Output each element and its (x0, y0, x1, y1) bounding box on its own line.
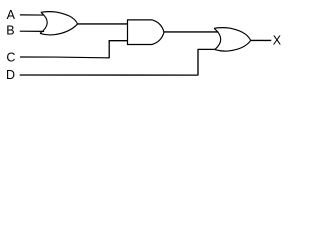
or-gate U1 bottom wing (40, 24, 78, 35)
svg-text:X: X (273, 33, 282, 47)
or-gate U1 top wing (41, 12, 78, 24)
or-gate U3 top wing (214, 28, 251, 41)
and-gate U2 (128, 20, 165, 45)
svg-text:C: C (6, 51, 15, 65)
or-gate U1 (A OR B) input edge (40, 12, 47, 33)
svg-text:D: D (6, 68, 15, 82)
wire D riser (197, 49, 199, 75)
or-gate U3 (output X) input edge (214, 28, 221, 49)
wire C to AND bottom input (109, 40, 128, 42)
svg-text:B: B (6, 24, 14, 38)
wire AND output to OR2 top input (164, 31, 218, 33)
wire OR1 output to AND top input (78, 23, 128, 25)
wire OR2 output to X (251, 39, 272, 41)
wire D to OR2 bottom input (198, 48, 217, 50)
wire C riser (108, 40, 110, 58)
wire D horizontal run (20, 74, 198, 76)
svg-text:A: A (7, 8, 16, 22)
wire A to OR1 top input (20, 14, 44, 16)
wire B to OR1 bottom input (20, 30, 44, 32)
or-gate U3 bottom wing (215, 40, 251, 51)
wire C horizontal run (20, 56, 109, 59)
